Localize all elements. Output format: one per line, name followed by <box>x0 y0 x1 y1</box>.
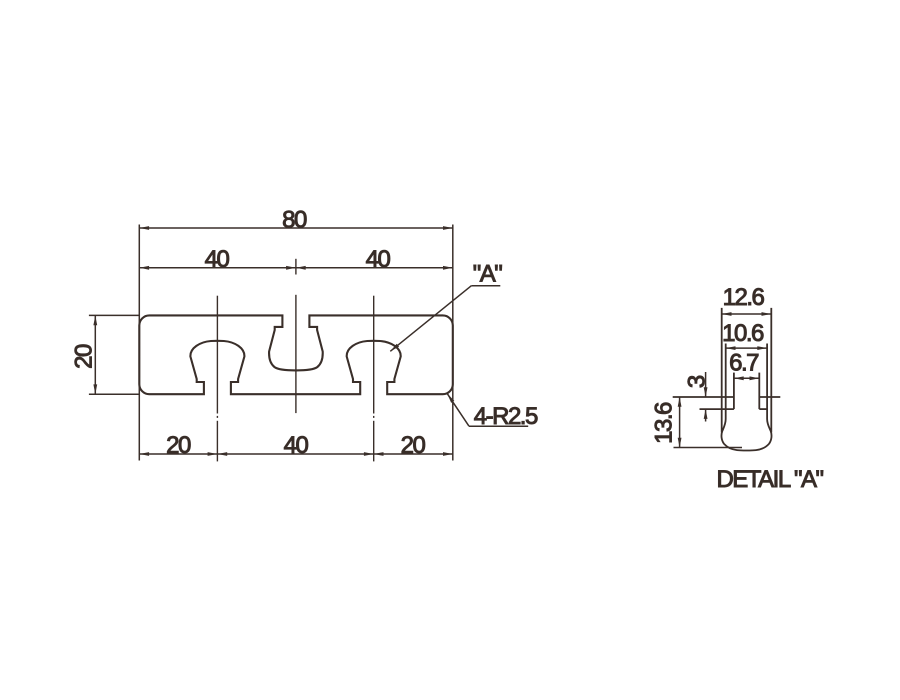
svg-text:40: 40 <box>366 246 391 273</box>
svg-text:20: 20 <box>401 432 426 459</box>
svg-text:13.6: 13.6 <box>651 402 678 444</box>
svg-text:10.6: 10.6 <box>722 320 764 347</box>
svg-text:40: 40 <box>284 432 309 459</box>
svg-text:4-R2.5: 4-R2.5 <box>474 403 538 430</box>
svg-text:DETAIL "A": DETAIL "A" <box>716 466 823 493</box>
svg-text:"A": "A" <box>473 261 503 288</box>
svg-text:6.7: 6.7 <box>729 350 759 377</box>
svg-text:40: 40 <box>205 246 230 273</box>
svg-text:80: 80 <box>282 206 307 233</box>
svg-text:20: 20 <box>166 432 191 459</box>
svg-text:20: 20 <box>70 344 97 369</box>
svg-text:12.6: 12.6 <box>723 284 765 311</box>
svg-text:3: 3 <box>683 375 710 388</box>
